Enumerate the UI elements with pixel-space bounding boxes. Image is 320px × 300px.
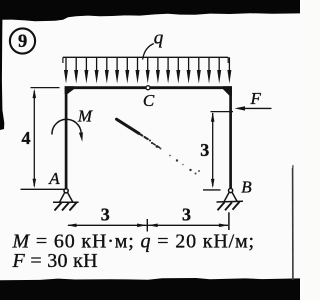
bottom dim center tick — [146, 219, 148, 232]
support A: hatching — [55, 203, 77, 211]
distributed load arrows — [65, 57, 67, 72]
problem number circle 9 — [10, 28, 35, 53]
svg-text:C: C — [143, 91, 155, 110]
label q leader line — [143, 44, 154, 60]
support B: triangle — [224, 192, 237, 201]
beam (top member) — [65, 86, 232, 89]
right dim extension bottom — [203, 189, 221, 191]
top-right corner fillet — [223, 86, 232, 95]
svg-text:3: 3 — [101, 205, 110, 225]
support B: ground line — [217, 200, 244, 203]
svg-text:F = 30 кН: F = 30 кН — [12, 250, 98, 272]
svg-text:9: 9 — [18, 32, 27, 52]
force F line — [240, 107, 272, 109]
left dimension line 4 — [33, 91, 35, 186]
svg-text:A: A — [48, 169, 60, 188]
left dim extension top — [31, 87, 60, 89]
bottom dimension line — [68, 224, 228, 226]
top scan bar — [0, 0, 300, 21]
scan streak diagonal — [117, 119, 140, 133]
svg-text:4: 4 — [22, 128, 31, 148]
left dim extension bottom — [21, 188, 65, 190]
support A: ground line — [53, 201, 79, 203]
svg-text:q: q — [154, 28, 164, 49]
support B: hatching — [218, 202, 240, 211]
right dim extension top — [211, 111, 234, 113]
right page crease line — [292, 168, 294, 280]
right dimension line 3 — [212, 113, 214, 186]
moment M arc — [52, 119, 81, 136]
support A: pin circle — [64, 189, 68, 193]
svg-text:B: B — [241, 178, 252, 197]
hinge C — [146, 86, 150, 90]
svg-text:F: F — [250, 89, 262, 108]
left column — [65, 88, 68, 191]
support B: pin circle — [229, 188, 233, 192]
svg-text:3: 3 — [182, 205, 191, 225]
top-left corner fillet — [65, 86, 74, 94]
left scan strip — [0, 0, 4, 130]
bottom scan bar — [0, 278, 300, 300]
svg-text:3: 3 — [200, 140, 209, 160]
distributed load top bar — [63, 56, 228, 58]
bottom dim right tick — [228, 212, 230, 230]
svg-text:M: M — [77, 107, 93, 126]
right column — [229, 88, 232, 191]
support A: triangle — [60, 192, 73, 201]
